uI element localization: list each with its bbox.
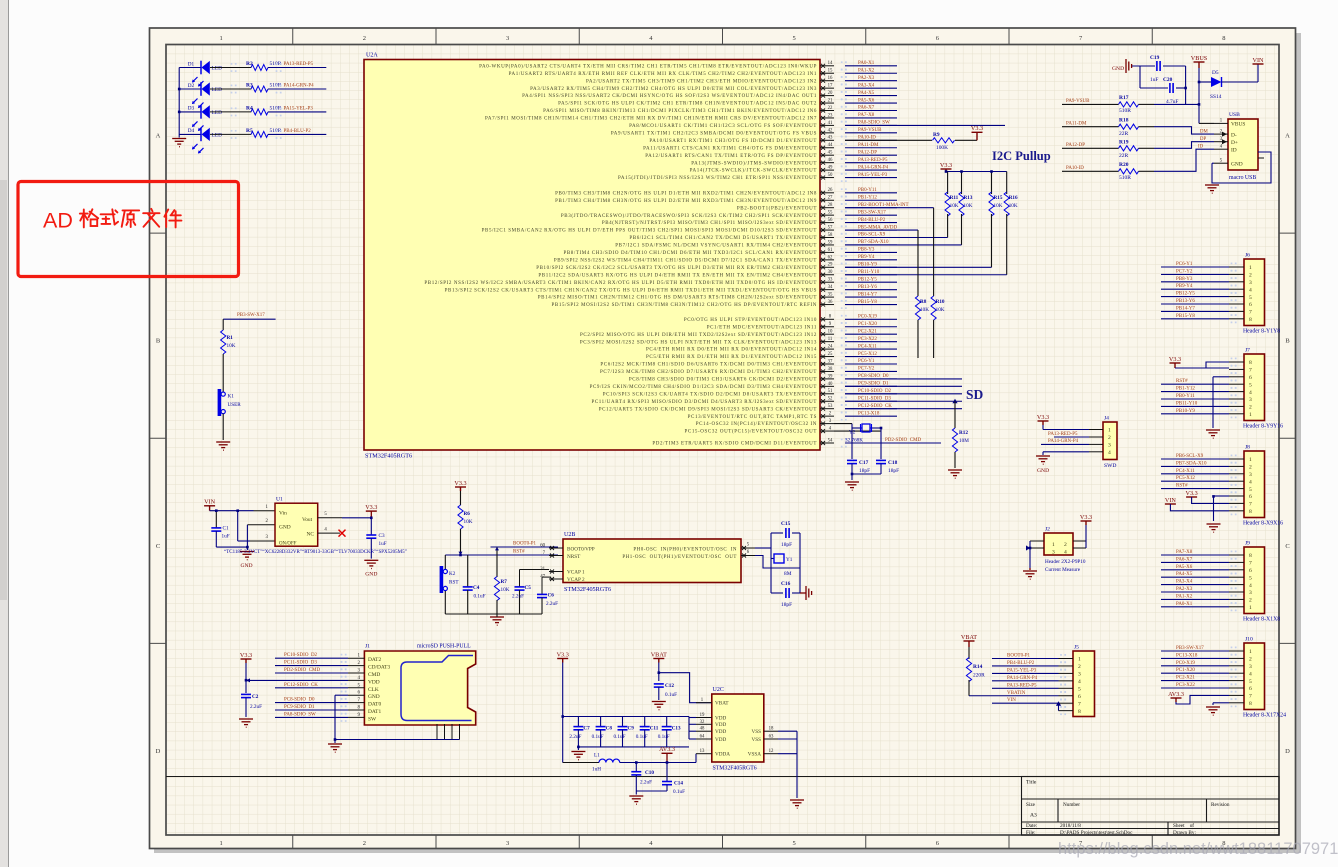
svg-text:Drawn By:: Drawn By: [1173, 830, 1196, 836]
ground K1 [216, 442, 230, 450]
svg-text:1: 1 [220, 840, 223, 847]
svg-text:0.1uF: 0.1uF [636, 734, 648, 740]
svg-text:BOOT0/VPP: BOOT0/VPP [567, 547, 595, 553]
power VBAT [653, 659, 664, 663]
svg-text:6: 6 [1249, 494, 1252, 500]
svg-text:PC7/I2S3 MCK/TIM8 CH2/SDIO D7/: PC7/I2S3 MCK/TIM8 CH2/SDIO D7/USART6 RX/… [600, 370, 817, 375]
wire PA8 long [845, 124, 1005, 126]
connector J5 [1073, 651, 1095, 717]
svg-text:R7: R7 [501, 579, 508, 585]
svg-text:D4: D4 [188, 128, 195, 134]
svg-text:50: 50 [828, 173, 833, 178]
svg-text:PC11-SDIO D3: PC11-SDIO D3 [284, 661, 317, 666]
sd card outline [401, 656, 473, 721]
J1 pin 6 GND [348, 694, 365, 696]
svg-text:1: 1 [1108, 428, 1111, 434]
svg-text:10K: 10K [501, 587, 510, 593]
ground reset rail [490, 617, 504, 625]
svg-text:2: 2 [1108, 435, 1111, 441]
svg-text:2: 2 [1078, 664, 1081, 670]
svg-text:16: 16 [828, 76, 833, 81]
U2C VDD stubs join [689, 717, 696, 719]
svg-text:27: 27 [828, 196, 833, 201]
svg-text:PC14-OSC32 IN(PC14)/EVENTOUT/O: PC14-OSC32 IN(PC14)/EVENTOUT/OSC32 IN [696, 422, 817, 427]
svg-text:PA15-YEL-P3: PA15-YEL-P3 [1007, 668, 1037, 673]
svg-text:LED: LED [212, 110, 223, 116]
capacitor C9 0.1uF [622, 717, 624, 727]
svg-text:10K: 10K [227, 343, 236, 349]
net PC1-X20 [1161, 672, 1229, 674]
power AV3.3 [662, 752, 673, 754]
wire V3.3 to R6 [460, 491, 462, 505]
svg-text:D: D [156, 748, 161, 755]
J1 pin 1 DAT2 [348, 657, 365, 659]
wire VDD rail [563, 716, 689, 718]
wire AVDD [620, 762, 696, 764]
svg-text:SD: SD [966, 387, 984, 402]
svg-text:5: 5 [1078, 687, 1081, 693]
wire VBAT to R14 [968, 647, 970, 659]
svg-text:PB11/I2C2 SDA/USART3 RX/OTG HS: PB11/I2C2 SDA/USART3 RX/OTG HS ULPI D4/E… [538, 273, 817, 278]
power V3.3 at C2 [241, 659, 252, 663]
svg-text:PC13/EVENTOUT/RTC OUT,RTC TAMP: PC13/EVENTOUT/RTC OUT,RTC TAMP1,RTC TS [688, 415, 817, 420]
capacitor C4 0.1uF [467, 555, 469, 587]
svg-text:13: 13 [700, 749, 705, 754]
svg-text:VSSA: VSSA [748, 752, 762, 758]
svg-text:2.2uF: 2.2uF [640, 780, 652, 786]
svg-text:D1: D1 [188, 61, 195, 67]
wire LED to R [210, 88, 251, 90]
svg-text:PB10/SPI2 SCK/I2S2 CK/I2C2 SCL: PB10/SPI2 SCK/I2S2 CK/I2C2 SCL/USART3 TX… [536, 266, 817, 271]
svg-text:PC5/ETH RMII RX D1/ETH MII RX: PC5/ETH RMII RX D1/ETH MII RX D1/EVENTOU… [646, 355, 817, 360]
wire GND row J1 [335, 694, 348, 696]
svg-text:microSD PUSH-PULL: microSD PUSH-PULL [417, 644, 471, 650]
svg-text:PA10/USART1 RX/TIM1 CH3/OTG FS: PA10/USART1 RX/TIM1 CH3/OTG FS ID/DCMI D… [649, 139, 817, 144]
svg-text:64: 64 [700, 735, 705, 740]
resistor R9 100K [845, 139, 932, 141]
svg-text:J10: J10 [1245, 637, 1253, 643]
connector USB [1228, 119, 1258, 170]
wire VSS to ground [778, 730, 797, 732]
svg-text:PB14-Y7: PB14-Y7 [858, 292, 877, 297]
svg-text:3: 3 [1249, 397, 1252, 403]
svg-text:38: 38 [828, 367, 833, 372]
wire Vout pin5 [318, 517, 342, 519]
svg-text:PC2-X21: PC2-X21 [1176, 676, 1195, 681]
svg-text:LED: LED [212, 66, 223, 72]
wire VSS bus vertical [688, 717, 690, 740]
svg-text:19: 19 [700, 713, 705, 718]
svg-text:D-: D- [1231, 132, 1237, 138]
ground below R12 [948, 470, 962, 478]
power V3.3 decoupling rail [557, 659, 568, 663]
svg-text:25: 25 [828, 352, 833, 357]
svg-text:1: 1 [1249, 605, 1252, 611]
svg-text:VBATIN: VBATIN [1007, 691, 1026, 696]
svg-text:C6: C6 [548, 593, 555, 599]
svg-text:36: 36 [828, 300, 833, 305]
net PC13-X18 [1161, 657, 1229, 659]
svg-text:PA1/USART2 RTS/UART4 RX/ETH RM: PA1/USART2 RTS/UART4 RX/ETH RMII REF CLK… [509, 72, 817, 77]
svg-text:GND: GND [365, 572, 377, 578]
svg-text:R1: R1 [227, 335, 234, 341]
svg-text:R11: R11 [950, 195, 959, 201]
svg-text:100K: 100K [936, 145, 948, 151]
svg-text:D+: D+ [1231, 140, 1238, 146]
svg-text:PA12-DP: PA12-DP [1066, 143, 1085, 148]
svg-text:0.1uF: 0.1uF [592, 734, 604, 740]
svg-text:PB14/SPI2 MISO/TIM1 CH2N/TIM12: PB14/SPI2 MISO/TIM1 CH2N/TIM12 CH1/OTG H… [538, 296, 817, 301]
capacitor C10 2.2uF [635, 763, 637, 772]
svg-text:5: 5 [1249, 487, 1252, 493]
diode D5 SS14 [1199, 81, 1211, 83]
svg-text:31: 31 [540, 567, 545, 572]
wire J1 bottom rail [335, 739, 460, 741]
svg-text:2.2uF: 2.2uF [512, 594, 524, 600]
svg-text:USER: USER [228, 402, 242, 408]
LED D4 [179, 133, 201, 135]
svg-text:6: 6 [1249, 302, 1252, 308]
svg-text:V3.3: V3.3 [240, 652, 252, 659]
svg-text:8: 8 [1222, 35, 1225, 42]
svg-text:PC9-SDIO D1: PC9-SDIO D1 [858, 382, 889, 387]
svg-text:8M: 8M [784, 571, 792, 577]
svg-text:22R: 22R [1119, 153, 1129, 159]
svg-text:3: 3 [506, 35, 509, 42]
svg-text:AV3.3: AV3.3 [659, 746, 675, 753]
svg-text:VDD: VDD [715, 715, 726, 721]
svg-text:6: 6 [1249, 686, 1252, 692]
svg-text:PC3/SPI2 MOSI/I2S2 SD/OTG HS U: PC3/SPI2 MOSI/I2S2 SD/OTG HS ULPI NXT/ET… [580, 340, 817, 345]
svg-text:PA14-GRN-P4: PA14-GRN-P4 [1048, 439, 1079, 444]
resistor R16 10K [1006, 172, 1008, 195]
net PA0-X1 [1161, 606, 1229, 608]
svg-text:8: 8 [1249, 317, 1252, 323]
svg-text:10K: 10K [964, 203, 973, 209]
svg-text:GND: GND [368, 694, 380, 700]
svg-text:SS14: SS14 [1210, 94, 1222, 100]
svg-text:R4: R4 [246, 105, 253, 111]
svg-text:U2C: U2C [713, 687, 724, 693]
svg-text:10K: 10K [1009, 203, 1018, 209]
svg-text:8: 8 [1078, 709, 1081, 715]
svg-text:VDD: VDD [368, 679, 380, 685]
net PB8-Y3 [1161, 281, 1229, 283]
svg-text:VBAT: VBAT [715, 701, 729, 707]
net RST# [1161, 383, 1229, 385]
wire cap join vertical [1185, 66, 1187, 104]
svg-text:Y1: Y1 [786, 557, 793, 563]
svg-text:2: 2 [1064, 542, 1067, 548]
wire BOOT0 [491, 546, 559, 548]
wire usb gnd [1212, 162, 1214, 164]
wire VIN rail [210, 510, 254, 512]
net PA5-X6 [1161, 569, 1229, 571]
svg-text:V3.3: V3.3 [1169, 356, 1181, 363]
svg-text:PB14-Y7: PB14-Y7 [1176, 306, 1195, 311]
svg-text:5: 5 [793, 35, 796, 42]
svg-text:60: 60 [540, 544, 545, 549]
net PB4-BLU-P2 [992, 665, 1059, 667]
svg-text:18pF: 18pF [781, 602, 792, 608]
svg-text:PA6/SPI1 MISO/TIM8 BKIN/TIM13: PA6/SPI1 MISO/TIM8 BKIN/TIM13 CH1/DCMI P… [543, 109, 817, 114]
resistor R1 10K [221, 330, 226, 354]
svg-text:220R: 220R [973, 673, 985, 679]
net PB6-SCL-X9 [1161, 458, 1229, 460]
svg-text:PB12-Y5: PB12-Y5 [1176, 292, 1195, 297]
svg-text:C4: C4 [473, 585, 480, 591]
capacitor C13 0.1uF [666, 717, 668, 727]
svg-text:CD/DAT3: CD/DAT3 [368, 665, 390, 671]
svg-text:1: 1 [1249, 265, 1252, 271]
svg-text:63: 63 [769, 735, 774, 740]
svg-text:PB1/TIM3 CH4/TIM8 CH3N/OTG HS: PB1/TIM3 CH4/TIM8 CH3N/OTG HS ULPI D2/ET… [555, 199, 817, 204]
ground analog [629, 796, 643, 804]
wire to net [268, 133, 326, 135]
regulator U1 [275, 503, 318, 546]
svg-text:1: 1 [1249, 412, 1252, 418]
net PA15-YEL-P3 [992, 672, 1059, 674]
svg-text:VDD: VDD [715, 737, 726, 743]
svg-text:10K: 10K [464, 519, 473, 525]
svg-text:5: 5 [1249, 295, 1252, 301]
svg-text:4: 4 [1078, 679, 1081, 685]
wire PH1 to crystal [755, 556, 800, 569]
svg-text:46: 46 [828, 158, 833, 163]
svg-text:3: 3 [1078, 672, 1081, 678]
svg-text:Header 8-Y1Y8: Header 8-Y1Y8 [1243, 329, 1280, 335]
svg-text:ID: ID [1198, 144, 1204, 149]
svg-text:GND: GND [279, 525, 291, 531]
ground C2 [239, 719, 253, 727]
svg-text:11: 11 [828, 337, 833, 342]
svg-text:PB0/TIM3 CH3/TIM8 CH2N/OTG HS: PB0/TIM3 CH3/TIM8 CH2N/OTG HS ULPI D1/ET… [555, 191, 817, 196]
svg-text:C13: C13 [672, 726, 681, 732]
net PC7-Y2 [1161, 273, 1229, 275]
svg-text:D3: D3 [188, 106, 195, 112]
svg-text:35: 35 [828, 293, 833, 298]
capacitor C3 1uF [370, 518, 372, 535]
svg-text:PA7-X8: PA7-X8 [1176, 550, 1193, 555]
net VBATIN [969, 695, 1059, 697]
svg-text:PC10/SPI3 SCK/I2S3 CK/UART4 TX: PC10/SPI3 SCK/I2S3 CK/UART4 TX/SDIO D2/D… [603, 392, 817, 397]
svg-text:C: C [156, 543, 160, 550]
svg-text:D5: D5 [1212, 70, 1219, 76]
svg-text:Y2: Y2 [849, 430, 856, 436]
power VBUS [1194, 62, 1205, 68]
J1 pin 4 VDD [348, 679, 365, 681]
capacitor C18 18pF [876, 460, 886, 463]
net PC2-X21 [1161, 680, 1229, 682]
svg-text:SWD: SWD [1104, 463, 1116, 469]
svg-text:V3.3: V3.3 [557, 651, 569, 658]
op-amp U2B STM32 system block [563, 539, 741, 583]
svg-text:R8: R8 [920, 299, 927, 305]
svg-text:PA10-ID: PA10-ID [1066, 166, 1084, 171]
svg-text:PB13/SPI2 SCK/I2S2 CK/USART3 C: PB13/SPI2 SCK/I2S2 CK/USART3 CTS/TIM1 CH… [445, 288, 817, 293]
svg-text:Header 2X2-P9P10: Header 2X2-P9P10 [1045, 559, 1086, 565]
wire LED rail [178, 68, 180, 138]
wire V3.3 down [245, 663, 247, 693]
net PC4-X11 [1161, 473, 1229, 475]
svg-text:C5: C5 [525, 585, 532, 591]
ground crystal [845, 482, 859, 490]
power V3.3 at R9 [972, 132, 983, 140]
svg-text:39: 39 [828, 374, 833, 379]
power V3.3 at J8 [1186, 496, 1197, 498]
svg-text:K1: K1 [228, 394, 235, 400]
svg-text:3: 3 [1249, 280, 1252, 286]
capacitor C19 1uF [1132, 65, 1155, 67]
svg-text:Header 8-X1X8: Header 8-X1X8 [1243, 617, 1280, 623]
svg-text:8: 8 [1249, 509, 1252, 515]
svg-text:PC1/ETH MDC/EVENTOUT/ADC123 IN: PC1/ETH MDC/EVENTOUT/ADC123 IN11 [707, 325, 817, 330]
svg-text:4: 4 [1249, 671, 1252, 677]
svg-text:Number: Number [1063, 802, 1080, 808]
svg-text:7: 7 [1078, 701, 1081, 707]
svg-text:55: 55 [828, 211, 833, 216]
svg-text:PH1-OSC OUT(PH1)/EVENTOUT/OSC: PH1-OSC OUT(PH1)/EVENTOUT/OSC OUT [622, 555, 737, 560]
svg-text:DP: DP [1200, 137, 1206, 142]
svg-text:PC8/TIM8 CH3/SDIO D0/TIM3 CH3/: PC8/TIM8 CH3/SDIO D0/TIM3 CH3/USART6 CK/… [629, 378, 817, 383]
svg-text:D:\PADS Projects\test\test.Sch: D:\PADS Projects\test\test.SchDoc [1060, 830, 1133, 836]
svg-text:6: 6 [1249, 568, 1252, 574]
svg-text:PB9-Y4: PB9-Y4 [858, 255, 875, 260]
connector J9 [1244, 547, 1265, 614]
U2B pin stubs [549, 547, 563, 549]
LED D3 [179, 111, 201, 113]
svg-text:4: 4 [1249, 479, 1252, 485]
svg-text:PC9/I2S CKIN/MCO2/TIM8 CH4/SDI: PC9/I2S CKIN/MCO2/TIM8 CH4/SDIO D1/I2C3 … [590, 385, 817, 390]
svg-text:5: 5 [1249, 575, 1252, 581]
no connect pin4 [318, 532, 340, 534]
svg-text:VSS: VSS [751, 737, 761, 743]
svg-text:PB4-BLU-P2: PB4-BLU-P2 [284, 129, 312, 134]
net PB3-SW-X17 [1161, 650, 1229, 652]
svg-text:A3: A3 [1030, 813, 1037, 819]
svg-text:41: 41 [828, 121, 833, 126]
resistor R10 10K MMA [845, 207, 934, 209]
svg-text:61: 61 [828, 248, 833, 253]
svg-text:U1: U1 [276, 497, 283, 503]
svg-text:NC: NC [307, 531, 315, 537]
svg-text:AV3.3: AV3.3 [1168, 691, 1184, 698]
svg-text:15: 15 [828, 69, 833, 74]
svg-text:R9: R9 [933, 132, 940, 138]
svg-text:PC12/UART5 TX/SDIO CK/DCMI D9/: PC12/UART5 TX/SDIO CK/DCMI D9/SPI3 MOSI/… [599, 407, 817, 412]
svg-text:10K: 10K [920, 307, 929, 313]
svg-text:PA1-X2: PA1-X2 [1176, 594, 1193, 599]
svg-text:PC11/UART4 RX/SPI3 MISO/SDIO D: PC11/UART4 RX/SPI3 MISO/SDIO D3/DCMI D4/… [591, 400, 817, 405]
resistor R2 510R [251, 65, 268, 71]
net PC5-X12 [1161, 480, 1229, 482]
svg-text:2: 2 [1249, 405, 1252, 411]
svg-text:RST#: RST# [1176, 379, 1188, 384]
wire down to R1 [222, 319, 224, 330]
svg-text:R18: R18 [1119, 117, 1129, 123]
wire K1 to ground [222, 414, 224, 440]
svg-text:PH0-OSC IN(PH0)/EVENTOUT/OSC: PH0-OSC IN(PH0)/EVENTOUT/OSC IN [633, 548, 737, 553]
net PB0-Y11 [1161, 398, 1229, 400]
svg-text:PC8-SDIO D0: PC8-SDIO D0 [284, 698, 315, 703]
wire GND pin2 [247, 524, 275, 526]
svg-text:PD2-SDIO CMD: PD2-SDIO CMD [284, 668, 321, 673]
svg-text:2: 2 [1249, 657, 1252, 663]
svg-text:PA14(JTCK-SWCLK)/JTCK-SWCLK/EV: PA14(JTCK-SWCLK)/JTCK-SWCLK/EVENTOUT [690, 169, 817, 174]
svg-text:Title: Title [1026, 780, 1037, 786]
svg-text:3: 3 [1249, 590, 1252, 596]
svg-text:VCAP 2: VCAP 2 [567, 577, 585, 583]
svg-text:PC3-X22: PC3-X22 [1176, 683, 1195, 688]
svg-text:D: D [1285, 748, 1290, 755]
switch K1 USER [221, 392, 225, 396]
svg-text:R12: R12 [959, 430, 968, 436]
wire LED to R [210, 111, 251, 113]
svg-text:ON/OFF: ON/OFF [279, 542, 297, 547]
LED D1 [179, 67, 201, 69]
power VIN top [1253, 63, 1264, 65]
svg-text:1uH: 1uH [592, 767, 601, 773]
capacitor C11 0.1uF [644, 717, 646, 727]
svg-text:47: 47 [540, 575, 545, 580]
net PC0-X19 [1161, 665, 1229, 667]
SD net wires [845, 378, 962, 380]
svg-text:58: 58 [828, 233, 833, 238]
svg-text:PA13-RED-P5: PA13-RED-P5 [1007, 683, 1037, 688]
net PC3-X22 [1161, 687, 1229, 689]
ground caps rail [571, 752, 585, 760]
wire J4 pin4 gnd [1043, 451, 1089, 453]
svg-text:Header 8-X17X24: Header 8-X17X24 [1243, 713, 1286, 719]
svg-text:VBUS: VBUS [1191, 55, 1208, 62]
svg-text:2: 2 [1249, 598, 1252, 604]
svg-text:14: 14 [828, 61, 833, 66]
capacitor C2 2.2uF [241, 694, 251, 697]
svg-text:PB0-Y11: PB0-Y11 [1176, 394, 1195, 399]
svg-text:17: 17 [828, 84, 833, 89]
power V3.3 at J2 [1081, 521, 1092, 525]
svg-text:57: 57 [828, 225, 833, 230]
net PB11-Y10 [1161, 405, 1229, 407]
svg-text:C12: C12 [665, 683, 674, 689]
svg-text:B: B [1285, 338, 1290, 345]
net PA13-RED-P5 [992, 687, 1059, 689]
svg-text:NRST: NRST [567, 554, 581, 560]
svg-text:7: 7 [1249, 368, 1252, 374]
svg-text:PA4-X5: PA4-X5 [1176, 572, 1193, 577]
net BOOT0-P1 [992, 658, 1059, 660]
svg-text:32: 32 [700, 720, 705, 725]
power VIN [204, 506, 215, 511]
net PA1-X2 [1161, 598, 1229, 600]
svg-text:PB3-SW-X17: PB3-SW-X17 [1176, 646, 1204, 651]
svg-text:PC7-Y2: PC7-Y2 [1176, 269, 1193, 274]
resistor R7 10K [496, 547, 498, 577]
wire PH0 to crystal [755, 547, 771, 549]
svg-text:PB10-Y9: PB10-Y9 [1176, 409, 1195, 414]
svg-text:PC10-SDIO D2: PC10-SDIO D2 [284, 653, 318, 658]
svg-text:VDDA: VDDA [715, 752, 730, 758]
connector J7 [1244, 354, 1265, 421]
svg-text:LED: LED [212, 87, 223, 93]
svg-text:R20: R20 [1119, 162, 1129, 168]
svg-text:2.2uF: 2.2uF [546, 601, 558, 607]
svg-text:PA9/USART1 TX/TIM1 CH2/I2C3 SM: PA9/USART1 TX/TIM1 CH2/I2C3 SMBA/DCMI D0… [611, 131, 817, 136]
svg-text:PA11/USART1 CTS/CAN1 RX/TIM1 C: PA11/USART1 CTS/CAN1 RX/TIM1 CH4/OTG FS … [643, 146, 817, 151]
svg-text:PA14-GRN-P4: PA14-GRN-P4 [1007, 676, 1038, 681]
resistor R14 220R [966, 658, 971, 682]
svg-text:AD: AD [43, 209, 73, 233]
